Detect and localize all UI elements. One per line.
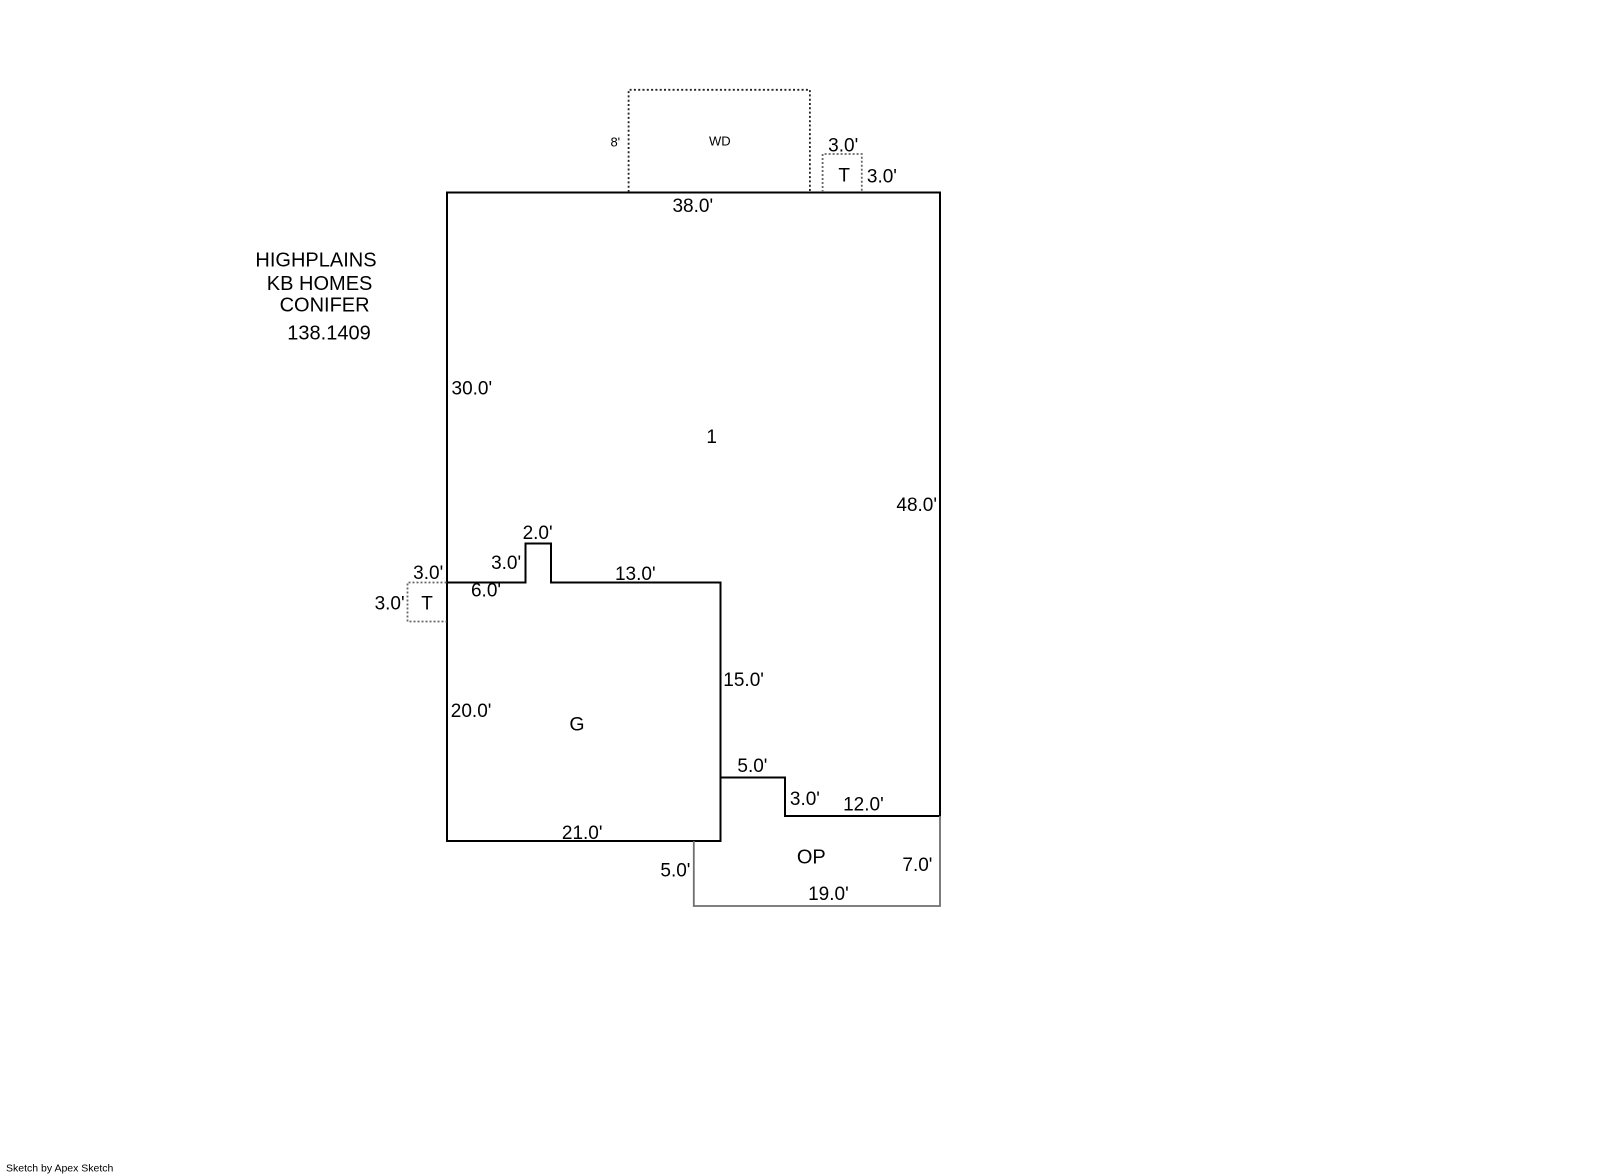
svg-text:19.0': 19.0' — [808, 884, 849, 905]
svg-text:8': 8' — [610, 135, 620, 150]
WD wood deck dotted rectangle (open bottom) — [629, 90, 810, 192]
svg-text:WD: WD — [709, 134, 731, 149]
svg-text:3.0': 3.0' — [867, 167, 897, 188]
svg-text:30.0': 30.0' — [452, 379, 493, 400]
svg-text:2.0': 2.0' — [523, 523, 553, 544]
area 1 + garage outer outline — [447, 193, 940, 842]
svg-text:3.0': 3.0' — [828, 136, 858, 157]
svg-text:21.0': 21.0' — [562, 823, 603, 844]
svg-text:3.0': 3.0' — [790, 789, 820, 810]
svg-text:T: T — [421, 593, 433, 614]
svg-text:7.0': 7.0' — [902, 855, 932, 876]
svg-text:20.0': 20.0' — [451, 701, 492, 722]
svg-text:13.0': 13.0' — [615, 564, 656, 585]
svg-text:12.0': 12.0' — [843, 795, 884, 816]
svg-text:Sketch by Apex Sketch: Sketch by Apex Sketch — [6, 1162, 114, 1174]
svg-text:KB HOMES: KB HOMES — [267, 273, 373, 295]
svg-text:3.0': 3.0' — [491, 553, 521, 574]
svg-text:G: G — [569, 714, 584, 736]
svg-text:138.1409: 138.1409 — [287, 323, 370, 345]
svg-text:HIGHPLAINS: HIGHPLAINS — [255, 250, 376, 272]
top T dotted box (open bottom) — [823, 154, 862, 192]
svg-text:T: T — [838, 166, 850, 187]
svg-text:5.0': 5.0' — [660, 861, 690, 882]
svg-text:6.0': 6.0' — [471, 581, 501, 602]
svg-text:3.0': 3.0' — [413, 563, 443, 584]
svg-text:5.0': 5.0' — [737, 756, 767, 777]
garage top partition with 2.0' notch and interior wall — [447, 544, 721, 778]
svg-text:CONIFER: CONIFER — [280, 295, 370, 317]
svg-text:1: 1 — [706, 427, 717, 448]
svg-text:38.0': 38.0' — [672, 196, 713, 217]
svg-text:48.0': 48.0' — [896, 495, 937, 516]
svg-text:15.0': 15.0' — [723, 670, 764, 691]
svg-text:3.0': 3.0' — [375, 594, 405, 615]
left T dotted box (open right) — [408, 583, 447, 622]
OP open porch gray outline — [694, 816, 940, 906]
svg-text:OP: OP — [797, 846, 826, 868]
